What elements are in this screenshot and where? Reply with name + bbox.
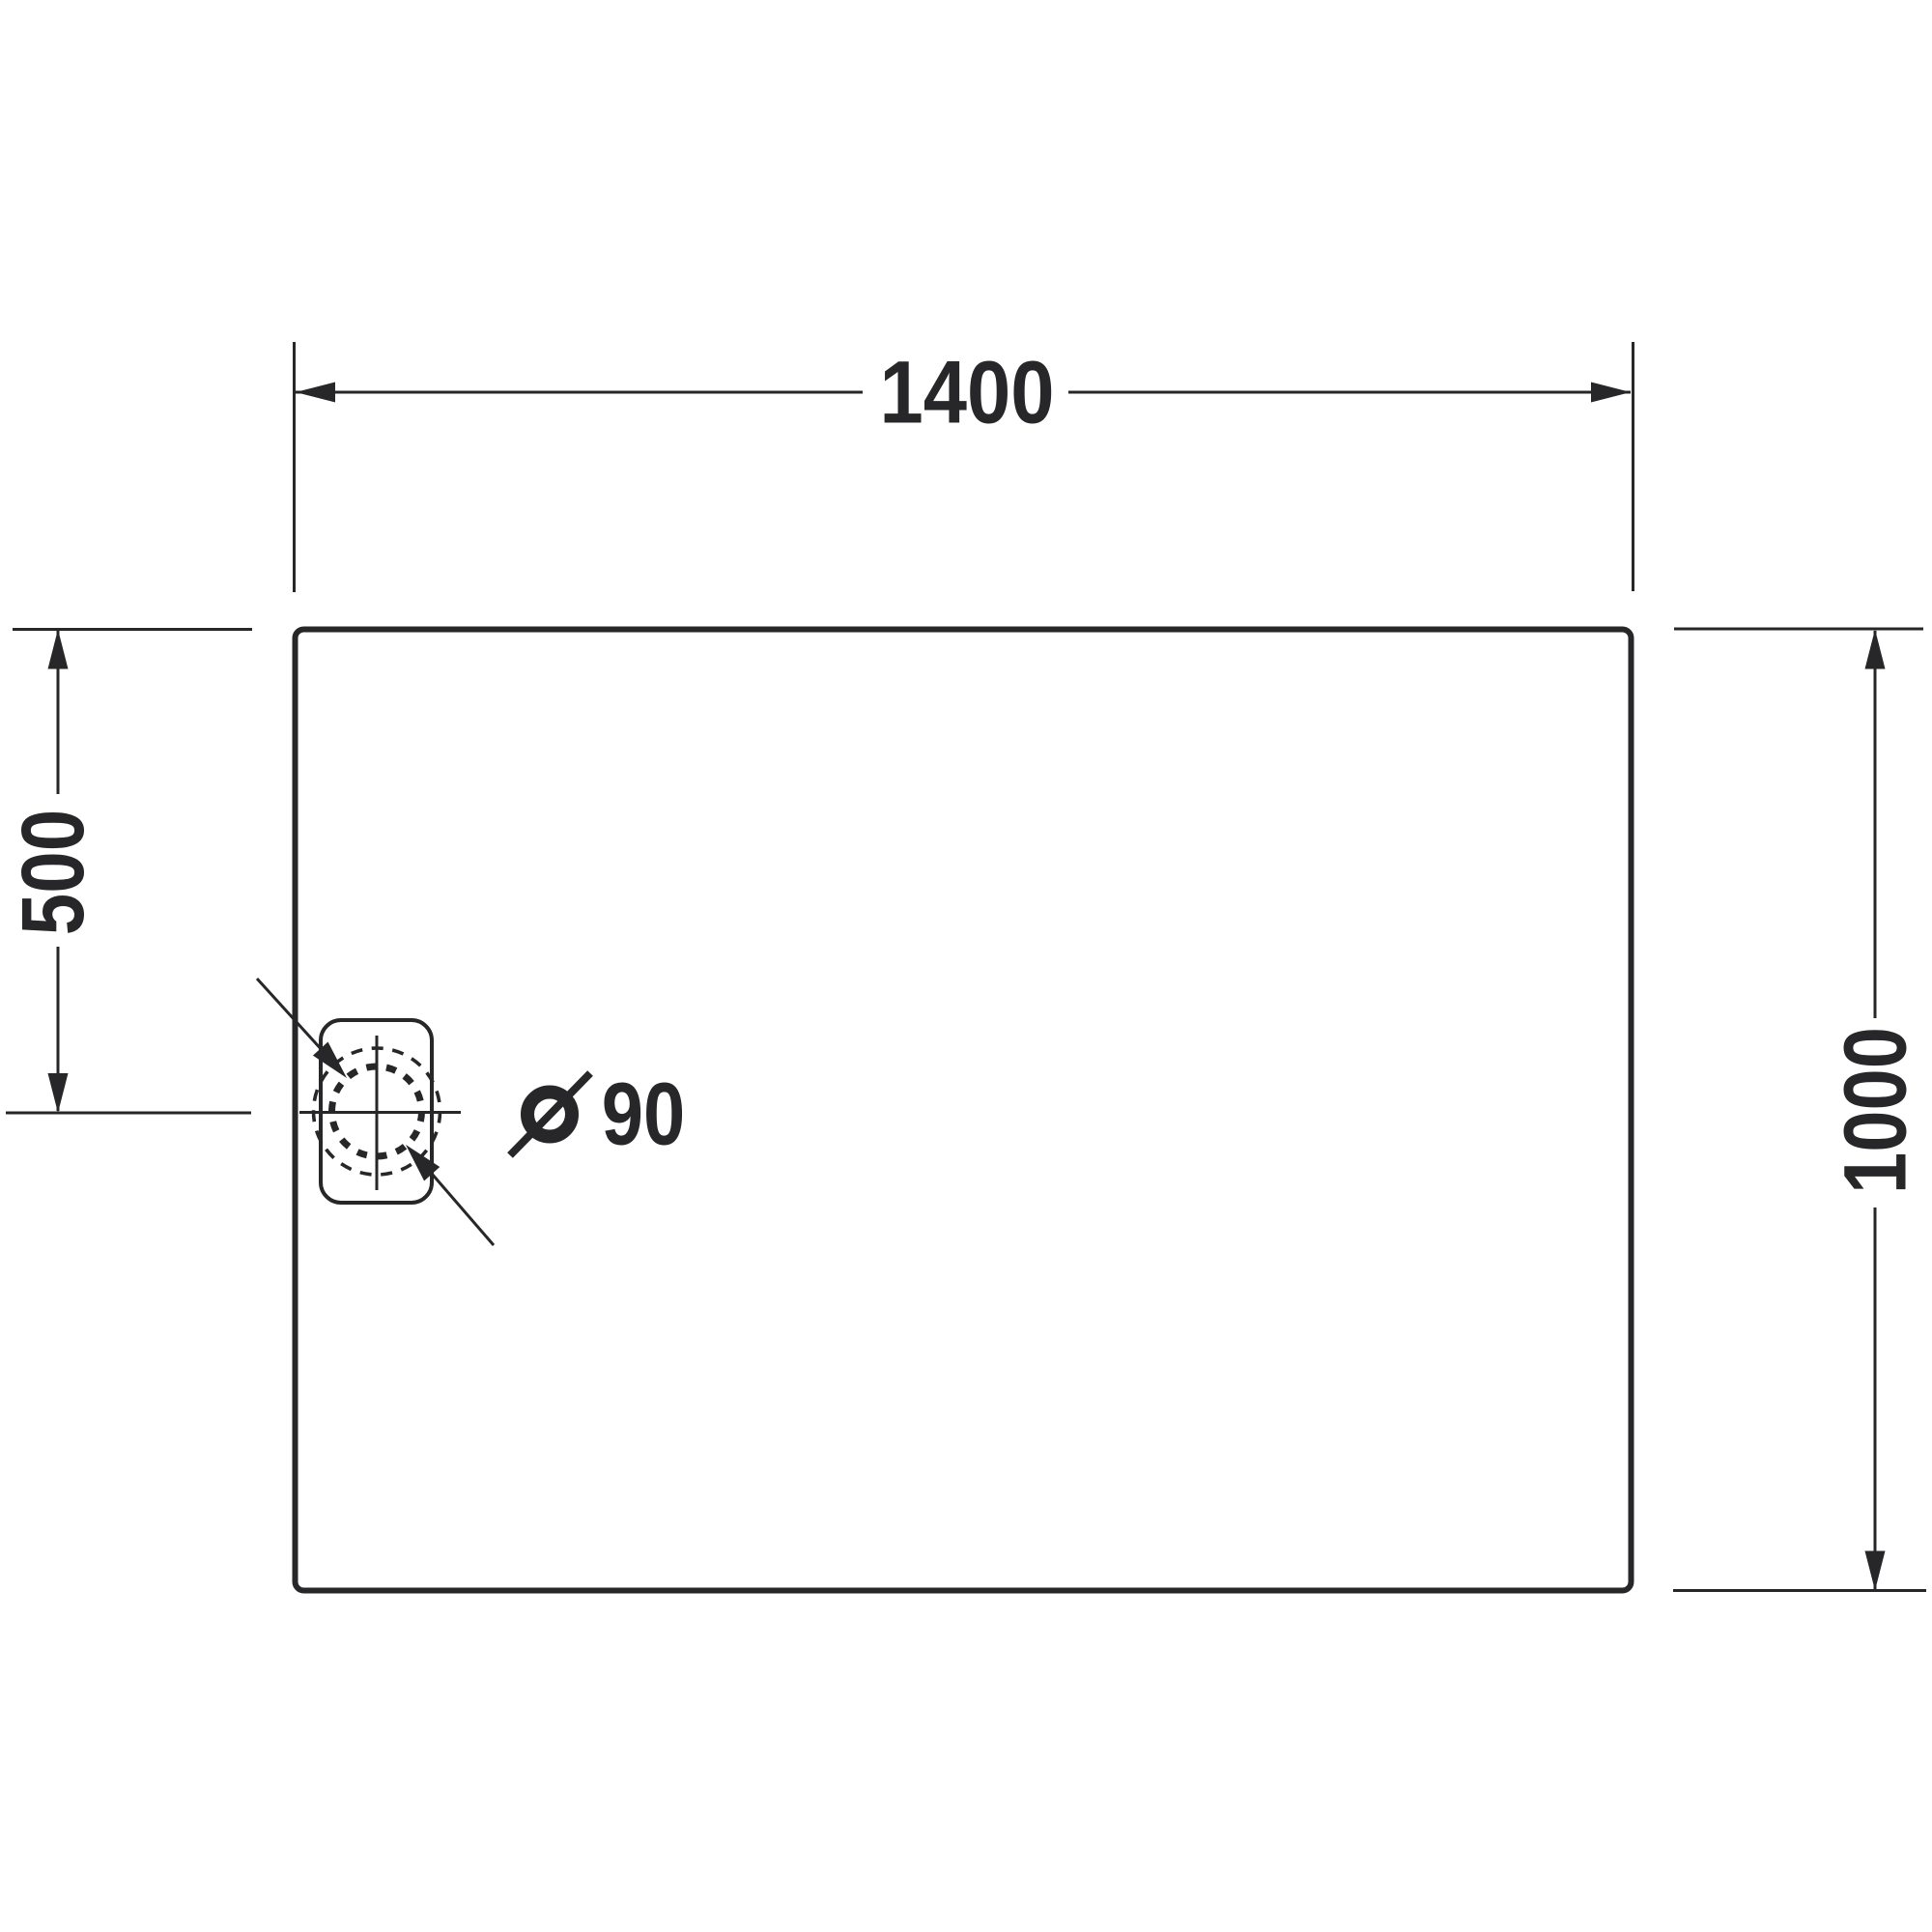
dimension line 1400 right segment — [1068, 391, 1631, 394]
arrowhead 1000 down — [1865, 1551, 1886, 1591]
dimension line 1000 lower segment — [1874, 1207, 1877, 1589]
drain recess rounded rectangle — [321, 1020, 432, 1203]
arrowhead 1400 left — [296, 383, 335, 403]
svg-text:90: 90 — [602, 1065, 685, 1164]
tick line top right (1000 dim reference) — [1674, 628, 1923, 631]
leader line upper-left — [257, 979, 333, 1063]
tick line bottom left (500 dim reference) — [6, 1112, 251, 1115]
leader arrowhead lower-right — [406, 1145, 440, 1181]
arrowhead 1400 right — [1591, 383, 1631, 403]
drain centerline horizontal — [299, 1111, 461, 1114]
tick line bottom right (1000 dim reference) — [1673, 1589, 1926, 1592]
dimension line 1000 upper segment — [1874, 631, 1877, 1018]
extension line right (1400 dim) — [1632, 342, 1634, 591]
arrowhead 500 down — [48, 1073, 69, 1113]
drain centerline vertical — [376, 1036, 379, 1190]
tray outline rectangle — [296, 630, 1632, 1591]
leader line lower-right — [419, 1159, 494, 1245]
diameter symbol circle — [527, 1093, 572, 1137]
arrowhead 500 up — [48, 630, 69, 669]
drain outer dashed circle — [314, 1048, 440, 1175]
dimension line 500 upper segment — [57, 631, 60, 794]
extension line left (1400 dim) — [293, 342, 296, 592]
svg-text:500: 500 — [4, 810, 102, 935]
tick line top left (500 dim reference) — [13, 628, 252, 631]
drain inner dashed circle (Ø90 waste hole) — [332, 1066, 422, 1156]
svg-text:1000: 1000 — [1827, 1027, 1926, 1194]
diameter symbol slash — [510, 1073, 590, 1155]
svg-text:1400: 1400 — [879, 343, 1054, 442]
leader arrowhead upper-left — [313, 1042, 347, 1079]
arrowhead 1000 up — [1865, 630, 1886, 669]
dimension line 1400 left segment — [296, 391, 863, 394]
dimension line 500 lower segment — [57, 947, 60, 1111]
